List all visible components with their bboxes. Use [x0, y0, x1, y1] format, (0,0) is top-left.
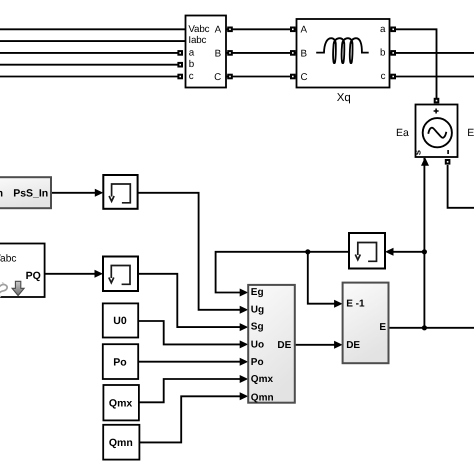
svg-text:s: s	[413, 150, 424, 155]
svg-text:Qmn: Qmn	[109, 437, 133, 449]
svg-text:C: C	[301, 72, 308, 83]
svg-text:PsS_In: PsS_In	[13, 188, 48, 200]
svg-text:Uo: Uo	[251, 339, 264, 350]
svg-text:c: c	[189, 71, 194, 82]
svg-text:b: b	[189, 59, 195, 70]
svg-text:E -1: E -1	[346, 299, 365, 310]
svg-text:Po: Po	[113, 356, 126, 368]
svg-text:PQ: PQ	[26, 270, 41, 282]
svg-text:DE: DE	[346, 340, 360, 351]
svg-text:E: E	[467, 127, 474, 139]
svg-text:Po: Po	[251, 357, 264, 368]
svg-text:Vabc: Vabc	[0, 253, 16, 264]
svg-text:Eg: Eg	[251, 287, 264, 298]
svg-text:n: n	[0, 188, 3, 200]
svg-text:Ea: Ea	[396, 127, 409, 139]
svg-text:A: A	[301, 25, 308, 36]
svg-text:E: E	[379, 322, 386, 333]
svg-text:a: a	[380, 24, 386, 35]
svg-text:C: C	[214, 72, 221, 83]
svg-text:DE: DE	[277, 340, 291, 351]
svg-text:Ug: Ug	[251, 304, 264, 315]
svg-text:U0: U0	[113, 315, 127, 327]
svg-text:a: a	[189, 47, 195, 58]
svg-text:c: c	[381, 71, 386, 82]
svg-text:Vabc: Vabc	[188, 24, 209, 35]
svg-text:Qmn: Qmn	[251, 392, 274, 403]
svg-text:Qmx: Qmx	[109, 397, 133, 409]
svg-text:B: B	[215, 48, 222, 59]
svg-text:b: b	[380, 47, 386, 58]
svg-text:A: A	[215, 25, 222, 36]
svg-text:Qmx: Qmx	[251, 374, 274, 385]
svg-text:Sg: Sg	[251, 321, 264, 332]
svg-text:Xq: Xq	[337, 92, 351, 104]
svg-text:Iabc: Iabc	[188, 35, 206, 46]
svg-text:B: B	[301, 48, 308, 59]
